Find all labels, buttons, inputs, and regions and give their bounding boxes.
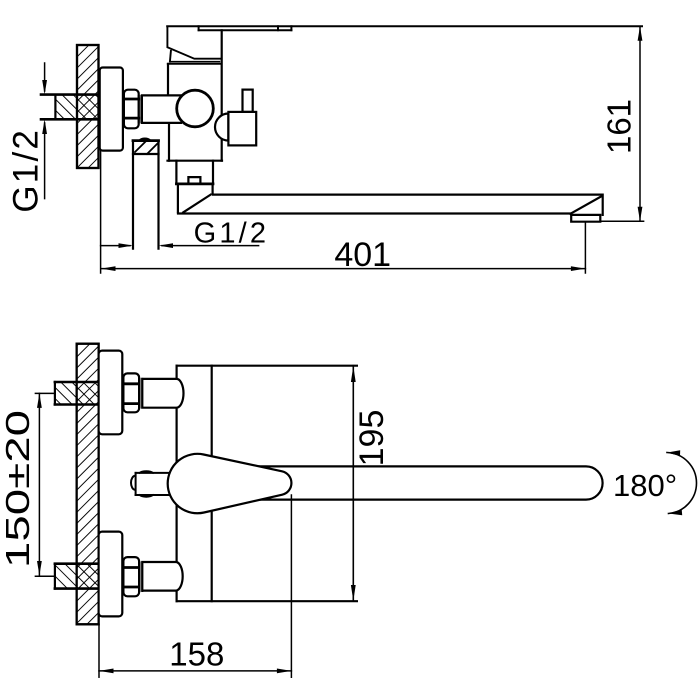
aerator — [571, 215, 600, 222]
dimension 158 — [99, 495, 291, 677]
svg-text:180°: 180° — [613, 468, 677, 503]
lower inlet pipe (hatched) — [35, 564, 98, 589]
wall section (hatched) — [77, 344, 99, 625]
hex nut (top view) — [124, 90, 141, 129]
top shower pipe bar + 161 top extension line — [167, 26, 642, 30]
hex nut upper — [123, 373, 142, 412]
small tab — [188, 177, 200, 184]
valve cap circle — [177, 90, 214, 127]
escutcheon flange (top view) — [100, 68, 123, 151]
hex nut lower — [123, 557, 142, 596]
dome bump on pipe top — [139, 138, 150, 140]
svg-text:G1/2: G1/2 — [7, 128, 46, 213]
shower outlet pipe (vertical, hatched G1/2) — [133, 138, 159, 248]
water stub (left of handle) — [131, 471, 172, 497]
svg-text:161: 161 — [601, 99, 638, 154]
spout base — [178, 185, 213, 212]
faucet body (front) — [177, 366, 357, 602]
diverter knob stem — [243, 90, 253, 112]
diverter knob dome — [215, 114, 228, 141]
spout tube — [178, 195, 603, 222]
svg-text:401: 401 — [334, 236, 391, 274]
inlet pipe G1/2 (hatched, through wall) — [41, 95, 99, 120]
dimension 161 (right) — [600, 26, 643, 221]
svg-text:195: 195 — [353, 410, 391, 467]
escutcheon flange upper — [99, 351, 123, 435]
svg-text:158: 158 — [169, 636, 224, 673]
lower neck of body — [176, 161, 213, 184]
handle (teardrop) — [168, 454, 292, 513]
wall section (hatched) — [77, 45, 99, 168]
diverter knob body — [228, 112, 256, 145]
dimension 150±20 — [38, 393, 40, 575]
eccentric connector upper (with round nose) — [142, 379, 183, 408]
body main block edges — [168, 30, 223, 160]
svg-text:G1/2: G1/2 — [194, 218, 270, 250]
svg-text:150±20: 150±20 — [0, 410, 36, 568]
left extension line (wall face) — [100, 151, 102, 273]
dimension 195 (body height, right edge doubles as dim line) — [352, 366, 354, 602]
escutcheon flange lower — [99, 532, 123, 617]
diverter head (top block) — [167, 27, 221, 64]
eccentric connector lower (with round nose) — [142, 562, 182, 591]
upper inlet pipe (hatched) — [35, 382, 98, 405]
spout bar (front view) — [258, 466, 603, 499]
dimension 401 — [101, 222, 585, 273]
rotation arc 180° — [667, 453, 697, 514]
dimension G1/2 (pipe diameter, left) — [44, 63, 46, 199]
dimension G1/2 (horizontal, below spout) — [101, 245, 259, 247]
eccentric connector (top view) — [142, 95, 181, 123]
